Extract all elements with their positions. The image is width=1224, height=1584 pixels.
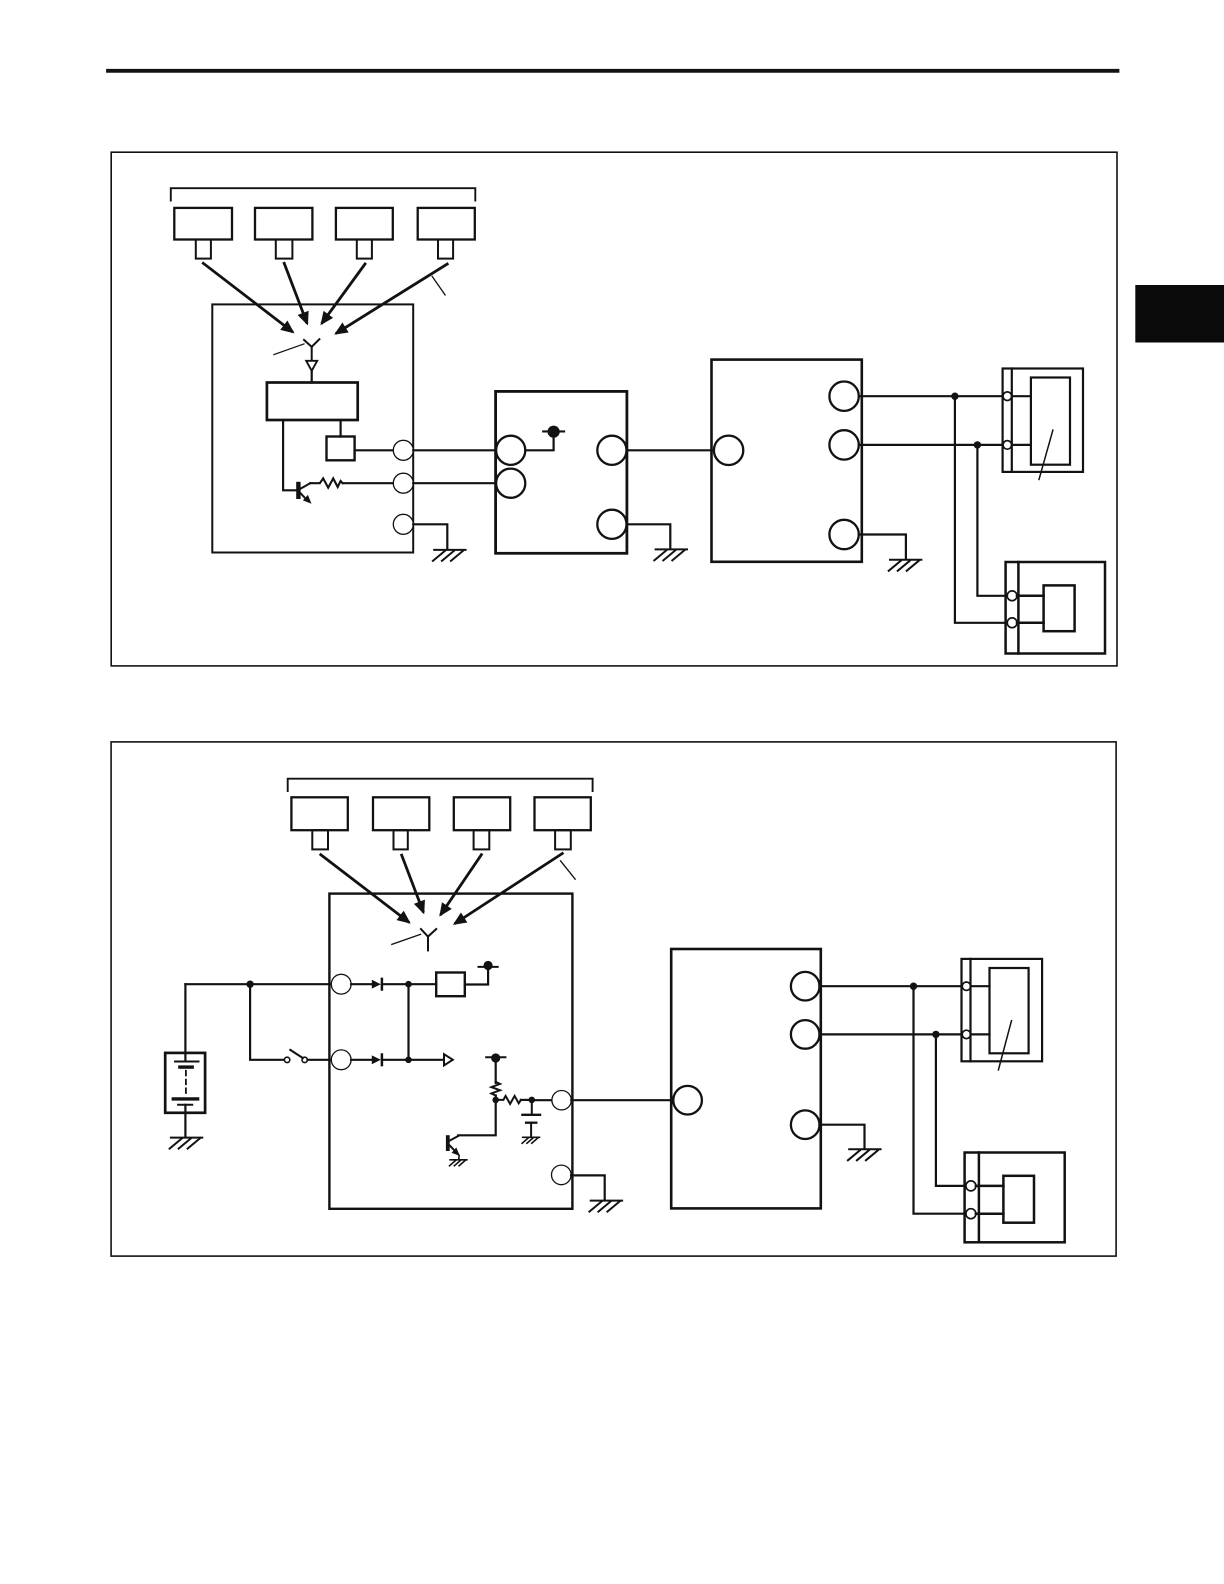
wire row 1 [413,449,496,451]
wire pin3 to ground [413,524,447,549]
regulator box [436,973,465,997]
transmitter B1 [291,797,347,849]
buffer triangle U1 [444,1054,453,1065]
wire D1 to regulator box [382,983,436,985]
ground (control unit) [433,550,466,561]
connector pin C3 [552,1091,571,1110]
junction connector box J1 [496,391,627,553]
pin BR1 [791,972,820,1001]
pin R3 (relay box right) [829,520,858,549]
horn unit 2 [965,1153,1065,1243]
wire R2 to node F [495,1096,497,1100]
signal arrow from B2 [402,855,423,911]
transmitter B3 [454,797,510,849]
wire node D to node E [407,984,409,1060]
wire driver box to pin 1 [355,449,394,451]
header rule [108,69,1118,73]
junction node I [932,1031,939,1038]
page edge index tab [1135,285,1224,343]
pin M2 [496,469,525,498]
pin M4 [597,510,626,539]
transmitter group bracket (diagram 2) [288,779,593,791]
wire node B to horn unit upper pin [977,445,1005,596]
junction node E [405,1057,412,1064]
wire node H to horn unit 2 lower pin [914,986,965,1213]
wire C4 to ground [571,1175,605,1200]
capacitor C1 [522,1100,540,1137]
wire switch to pin C2 [308,1059,332,1061]
transmitter B2 [373,797,429,849]
power feed dot 3 [491,1053,500,1062]
wire D2 to buffer [382,1059,444,1061]
power feed tick 3 [486,1056,505,1058]
diagram 1 frame [111,152,1117,666]
ground (control unit 2) [589,1201,622,1212]
signal arrow from B3 [441,855,481,914]
wire regulator to power feed [465,970,488,985]
transmitter T2 [255,208,312,259]
transmitter T1 [174,208,232,259]
ground (relay box) [889,560,922,571]
keyless entry control unit box [212,304,413,552]
connector box (diagram 2) [671,949,821,1208]
pin M1 [496,436,525,465]
wire BR2 to hazard unit 2 [820,1033,962,1035]
pin M3 [597,436,626,465]
wire M4 to ground [627,524,670,548]
wire battery to pin C1 [185,983,331,985]
wire row 1 to relay box [627,449,712,451]
junction node B [974,441,981,448]
antenna 2 leader line [392,934,421,944]
ground (connector box 2) [848,1149,881,1160]
transmitter T3 [336,208,393,259]
leader line near B4 arrow [561,861,576,879]
connector pin 1 (control unit) [393,440,413,460]
wire C1 to diode D1 [351,983,372,985]
power feed dot [548,426,560,438]
signal arrow from T1 [203,263,291,331]
wire BR3 to ground [820,1125,865,1149]
pin BR3 [791,1110,820,1139]
antenna ANT2 [421,929,436,950]
junction node G [529,1097,536,1104]
pin R2 (relay box right) [829,430,858,459]
connector pin C1 [331,974,351,994]
power feed tick [543,430,564,432]
wire R1 to hazard unit [859,395,1003,397]
pin L (relay box left) [714,436,743,465]
wire node G to pin C3 [532,1099,552,1101]
wire R3 to ground [859,535,906,560]
diagram 2 frame [111,742,1116,1256]
wire M1 to power feed [525,438,553,450]
signal arrow from T4 [337,264,447,333]
transmitter group bracket [171,188,476,200]
transmitter T4 [418,208,475,259]
wire R3 to node G [521,1099,532,1101]
wire feed to resistor R2 [495,1063,497,1083]
wire R2 to hazard unit [859,444,1003,446]
signal arrow from T2 [284,263,307,322]
wire C2 to diode D2 [351,1059,372,1061]
transistor Q2 [446,1135,460,1159]
receiver module box [267,383,358,421]
ground (emitter) [450,1160,467,1166]
leader line near T4 arrow [432,276,445,295]
ground (junction box) [654,549,687,560]
wire node A to horn unit lower pin [955,396,1006,623]
wire receiver to driver box [340,420,342,436]
wire node F to transistor collector [458,1100,496,1135]
antenna feed triangle [306,361,317,371]
diode D1 [372,979,382,990]
wire node I to horn unit 2 upper pin [936,1034,965,1186]
junction node D [405,981,412,988]
junction node A [951,393,958,400]
wire receiver to transistor base [283,420,296,490]
connector pin 3 (control unit) [393,514,413,534]
hazard warning unit (top right) [1003,369,1083,472]
wire antenna to receiver [311,371,313,383]
power feed tick 2 [479,966,498,968]
signal arrow from B1 [321,855,408,922]
pin R1 (relay box right) [829,382,858,411]
ground (capacitor) [522,1137,539,1143]
antenna ANT1 [304,339,319,360]
pin BR2 [791,1020,820,1049]
pin BL [673,1086,702,1115]
connector pin C4 [552,1165,572,1185]
wire C3 to connector box pin BL [571,1099,673,1101]
antenna leader line [274,344,304,355]
resistor R2 (vertical) [491,1082,500,1096]
diode D2 [372,1055,382,1066]
keyless control unit box (diagram 2) [329,894,572,1209]
connector pin 2 (control unit) [393,473,413,493]
transistor Q1 [296,482,311,504]
power feed dot 2 [484,961,493,970]
junction node H [910,983,917,990]
relay box (diagram 1 right) [712,360,862,562]
horn unit (bottom right) [1006,562,1105,654]
connector pin C2 [331,1050,351,1070]
driver box [327,437,355,461]
resistor R1 [310,478,342,487]
hazard warning unit 2 [962,959,1043,1061]
resistor R3 (horizontal) [496,1096,521,1104]
junction node C [246,981,253,988]
wire row 2 [413,482,496,484]
wire node C to switch [250,984,284,1060]
wire R1 to pin 2 [343,482,394,484]
ground (battery) [170,1138,203,1149]
hazard unit leader slash [1039,430,1053,479]
battery BAT [165,984,205,1137]
signal arrow from B4 [456,854,563,924]
transmitter B4 [535,797,591,849]
wire BR1 to hazard unit 2 [820,985,962,987]
signal arrow from T3 [322,264,365,323]
ignition switch SW [284,1050,307,1063]
junction node F [492,1097,499,1104]
hazard unit 2 leader slash [998,1021,1011,1070]
